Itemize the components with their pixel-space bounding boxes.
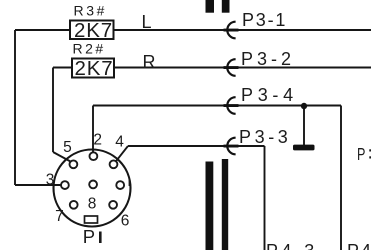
svg-text:R3#: R3# [74,2,107,18]
wire: P3-4 row from pin2 riser to connector [93,105,224,107]
P1 pin 6 [109,201,117,209]
svg-text:2K7: 2K7 [74,19,113,42]
svg-text:P: P [357,145,365,165]
DIN connector P1 body circle [54,150,131,227]
svg-text:2: 2 [93,132,102,149]
connector P3-4 (socket arc and pin) [224,97,239,114]
wire: P3-4 from connector to right corner [236,105,341,107]
wire: P3-2 to right edge [236,67,371,69]
wire: right vertical from P3-4 corner to bottom (P4) [340,106,342,250]
junction node on P3-4 wire [301,103,307,109]
svg-text:8: 8 [88,196,97,213]
P1 pin 8 (center) [89,181,97,189]
wire: R3 to P3-1 connector [114,29,225,31]
P1 key notch [85,216,98,223]
svg-text:4: 4 [115,134,124,151]
connector P3-2 (socket arc and pin) [224,59,239,76]
svg-text:R: R [143,52,156,72]
wire: P3-1 to right edge [236,29,371,31]
svg-text:P: P [83,226,95,247]
svg-text:P4: P4 [347,241,371,250]
P1 pin 7 [70,201,78,209]
svg-text:R2#: R2# [73,41,106,57]
resistor R2 box [72,59,114,78]
P1 pin 5 [70,160,78,168]
wire: left wire of R3 from vertical riser to resistor [15,29,70,31]
svg-text:7: 7 [55,208,64,225]
wire: P3-3 after connector to corner [236,145,265,147]
svg-text:2K7: 2K7 [75,57,114,80]
ground (chassis bar) [293,145,315,151]
svg-text:L: L [142,12,152,32]
wire: vertical down to bottom (P4-3) [264,146,266,250]
P1 pin 1 [116,181,124,189]
pin label 1 (bar) [129,179,131,186]
svg-text:P3-4: P3-4 [241,85,298,105]
svg-text:P4-3: P4-3 [266,241,318,250]
wire: P3-3 row to connector [128,145,224,147]
wire: horizontal into pin 3 [15,184,61,186]
resistor R3 box [70,21,114,40]
wire: R2 to P3-2 connector [114,67,224,69]
connector P3-1 (socket arc and pin) [224,22,239,39]
svg-text:P3-3: P3-3 [239,127,291,147]
wire: vertical riser from R3 down left side to pin 3 row [14,30,16,185]
svg-text:3: 3 [46,172,55,189]
P1 pin 4 [110,160,118,168]
P1 pin 2 [90,152,98,160]
svg-text:5: 5 [63,139,72,156]
wire: vertical riser from R2 down to pin 5 [52,68,54,153]
connector P3-3 (socket arc and pin) [224,138,239,155]
wire: left wire of R2 [53,67,72,69]
svg-text:P3-1: P3-1 [242,10,287,30]
wire: diagonal from pin 4 [116,146,128,161]
shielded cable bars (top pair) [206,0,230,13]
svg-text:6: 6 [121,213,130,230]
shielded cable bars (bottom pair) [206,159,229,250]
wire: pin 2 vertical up to P3-4 row [92,106,94,153]
svg-text:P3-2: P3-2 [241,49,295,69]
wire: junction drop to ground [303,106,305,145]
wire: diagonal into pin 5 [53,152,71,162]
P1 pin 3 [61,181,69,189]
